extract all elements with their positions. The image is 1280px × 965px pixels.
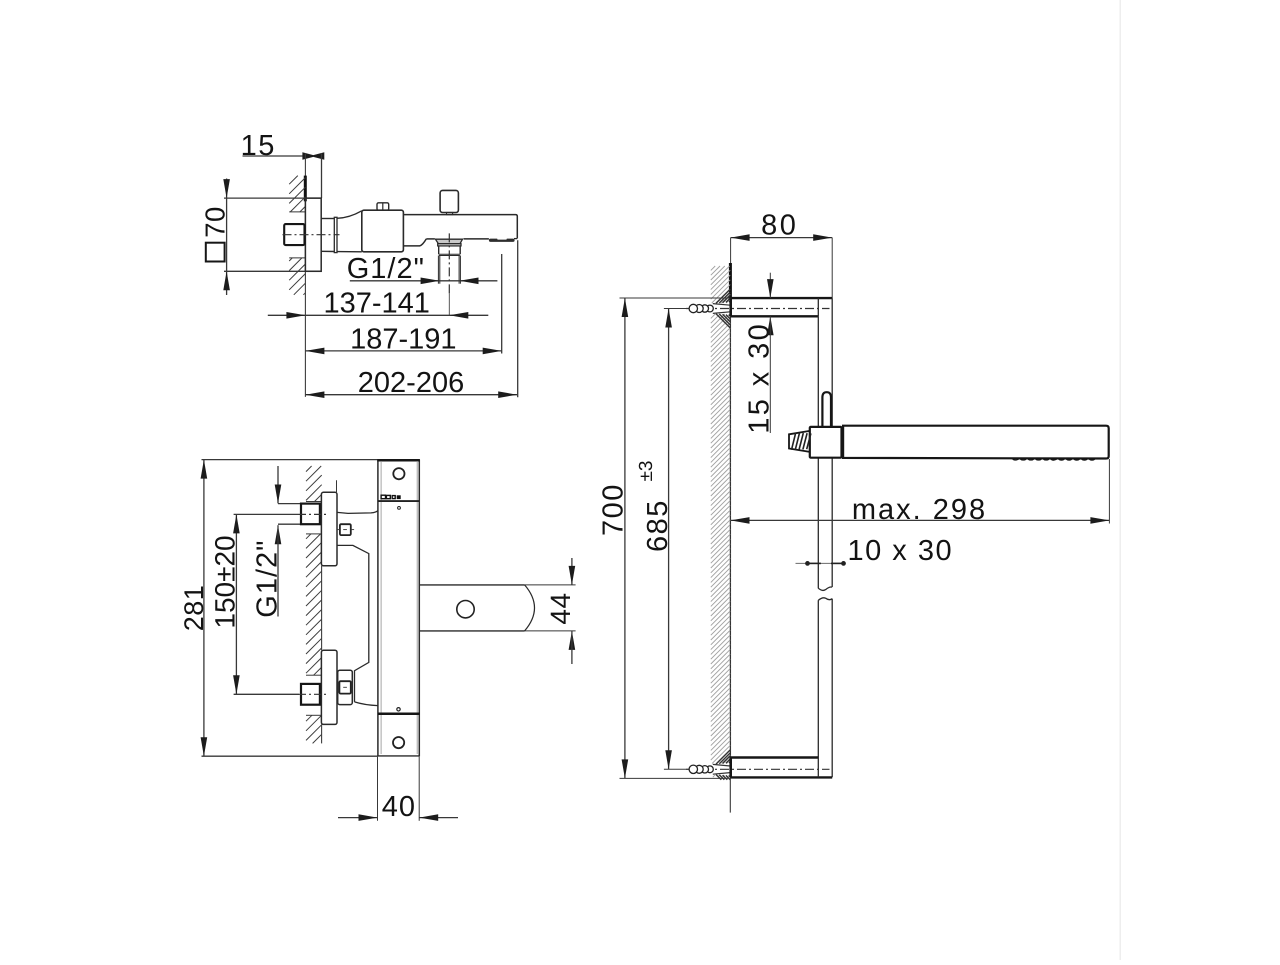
dimension 150 plus-minus 20 [210,514,299,694]
in-wall supply fitting (side view) [283,224,340,245]
dimension 685 plus-minus 3 [636,309,688,770]
escutcheon bottom (front view) [321,650,337,724]
wall hatch (side view) [289,176,305,295]
small screw bottom [397,708,400,711]
supply fitting top (front view) [299,504,326,525]
bottom mounting hole [393,737,404,748]
escutcheon plate (side view) [305,198,321,271]
holder lever [822,392,831,427]
spout (side view) [403,215,517,246]
svg-text:44: 44 [545,592,576,624]
svg-text:15: 15 [241,130,276,162]
anchor hole hatch wedges top [713,289,730,328]
top wall anchor [689,304,713,312]
stub line above top escutcheon [336,480,338,492]
dimension 281 [179,460,379,757]
svg-text:10 x 30: 10 x 30 [847,535,953,567]
dimension 187-191 [305,254,501,355]
dimension 40 [338,756,458,823]
small screw top [398,507,401,510]
shower column (front view) [377,460,420,756]
dimension 10 x 30 [796,535,954,567]
dimension 15 x 30 [743,273,775,434]
dimension 80 [731,210,833,298]
holder block [810,427,842,458]
svg-text:70: 70 [199,206,230,238]
supply fitting bottom (front view) [299,684,326,705]
dimension 202-206 [305,240,517,399]
wall hatch (right view) [711,266,730,777]
faint vertical artifact line [1119,0,1121,960]
wall surface line (side view) [304,153,306,397]
dimension max. 298 [731,459,1110,526]
connector centerline [448,233,450,315]
dimension G1/2 (side view) [347,253,498,285]
aerator outlet [489,238,515,242]
dimension G1/2 (front view) [251,466,301,618]
top bracket centerline [686,308,830,310]
cartridge screw bottom [339,681,350,693]
hose nipple [789,431,811,452]
mixer body outline (front view) [337,511,378,706]
wall surface segments (front view) [321,566,323,744]
body top knob [377,203,389,211]
escutcheon top (front view) [321,492,337,566]
dimension 700 [598,298,731,778]
handshower connector [435,239,462,284]
handshower handle [843,426,1109,460]
dimension 137-141 [268,288,489,320]
wall surface line (right view) [729,263,732,813]
top wall bracket [731,298,833,316]
anchor hole hatch wedges bottom [713,750,730,780]
slide bar [818,298,832,777]
bottom wall bracket [730,758,832,778]
spout (front view) [419,585,575,631]
svg-text:40: 40 [382,791,416,823]
mixer body [362,210,404,252]
top mounting hole [393,468,404,479]
logo marks row [381,495,400,499]
bottom wall anchor [689,765,713,773]
dimension 44 [545,558,576,664]
svg-text:80: 80 [761,210,798,242]
wall hatch (front view) [306,466,322,743]
diverter knob [440,190,458,214]
bar break symbol [818,587,832,600]
bottom bracket centerline [686,768,830,770]
dimension 15 (wall to escutcheon front) [241,130,325,198]
dimension square 70 (escutcheon size) [199,179,320,296]
cartridge screw top [337,524,354,535]
svg-text:G1/2": G1/2" [347,253,425,285]
svg-text:±3: ±3 [636,461,657,482]
faucet inlet nipple and collar [321,211,362,253]
